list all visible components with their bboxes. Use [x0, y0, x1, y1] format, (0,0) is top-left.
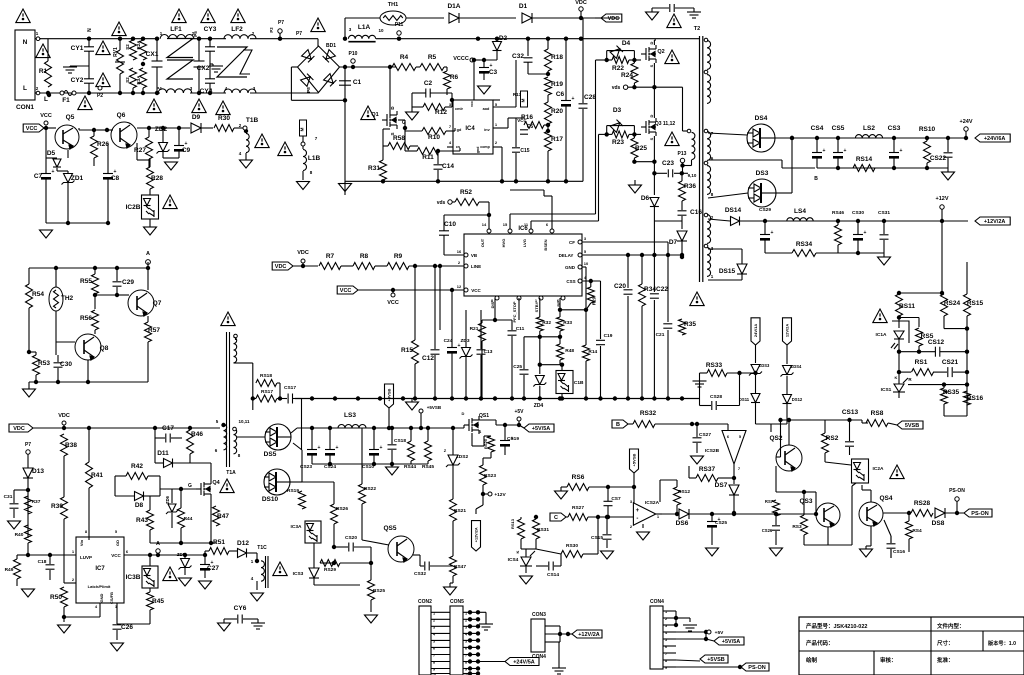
IC6 pin PFC_STOP — [512, 296, 521, 323]
svg-text:RS31: RS31 — [537, 527, 549, 533]
opto IC3A — [291, 521, 321, 543]
svg-text:R20: R20 — [551, 108, 563, 115]
svg-text:C9: C9 — [182, 147, 191, 154]
svg-text:ICS3: ICS3 — [293, 571, 304, 577]
svg-text:F1: F1 — [62, 97, 70, 104]
svg-text:R19: R19 — [551, 81, 563, 88]
svg-text:R27: R27 — [134, 147, 146, 154]
svg-text:K: K — [895, 375, 898, 380]
capacitor CY6 — [224, 605, 258, 624]
svg-text:+12V/2A: +12V/2A — [984, 219, 1006, 225]
svg-text:R52: R52 — [460, 189, 472, 196]
IC IC4 — [449, 100, 498, 154]
diode D11 — [157, 450, 172, 468]
node B flag — [612, 420, 633, 428]
net flag +5V/5A — [519, 424, 554, 432]
svg-text:IC1B: IC1B — [573, 380, 584, 386]
svg-text:DS8: DS8 — [932, 520, 945, 527]
svg-text:R28: R28 — [151, 175, 163, 182]
svg-text:CF: CF — [569, 240, 575, 245]
wire — [444, 213, 491, 255]
net +12V b — [481, 492, 507, 498]
diode D2 — [493, 35, 508, 51]
vflag 24V1A — [751, 318, 760, 345]
opto IC1A — [876, 321, 909, 349]
wire — [925, 136, 929, 168]
svg-text:R25: R25 — [635, 145, 647, 152]
wire — [479, 202, 489, 228]
junction — [403, 126, 407, 130]
svg-text:BD1: BD1 — [326, 43, 336, 49]
svg-text:Q2: Q2 — [657, 49, 664, 55]
capacitor C28 — [579, 18, 597, 181]
svg-text:S: S — [649, 137, 654, 140]
transistor QS3 — [799, 498, 840, 527]
svg-text:+5VSB: +5VSB — [707, 657, 725, 663]
svg-text:R18: R18 — [551, 54, 563, 61]
net +5V b — [707, 630, 724, 636]
wire R29 col — [584, 281, 591, 312]
wire — [862, 485, 871, 502]
net flag VDC2 — [272, 250, 309, 270]
junction — [54, 266, 150, 270]
opto IC1B — [556, 371, 584, 394]
resistor RS33 — [706, 362, 727, 377]
net VDC stub — [58, 413, 70, 430]
svg-text:T1B: T1B — [246, 117, 259, 124]
svg-text:+24V: +24V — [960, 119, 973, 125]
ground — [22, 589, 35, 597]
svg-text:RS15: RS15 — [967, 300, 984, 307]
capacitor CS22 — [930, 136, 953, 168]
svg-text:9: 9 — [665, 666, 667, 670]
junction — [161, 126, 165, 130]
svg-text:3: 3 — [449, 102, 452, 107]
node L — [44, 93, 51, 103]
svg-text:C31: C31 — [4, 494, 13, 500]
svg-text:RS13: RS13 — [510, 518, 515, 529]
svg-text:Latch/Plimit: Latch/Plimit — [88, 584, 111, 589]
ground — [520, 576, 533, 584]
svg-text:6: 6 — [215, 448, 218, 453]
svg-text:4: 4 — [251, 576, 254, 581]
wire — [674, 611, 690, 627]
svg-text:C32: C32 — [512, 53, 524, 60]
svg-text:RS22: RS22 — [364, 486, 376, 492]
svg-text:10: 10 — [378, 28, 384, 33]
wire — [899, 350, 969, 354]
safety symbol — [36, 44, 50, 58]
wire D3 loop — [607, 126, 635, 135]
svg-text:RS26: RS26 — [336, 506, 348, 512]
IC IC7 — [72, 529, 129, 609]
wire — [493, 147, 502, 181]
svg-text:产品型号：JSK4210-022: 产品型号：JSK4210-022 — [806, 622, 867, 630]
ground — [444, 587, 457, 595]
wire — [675, 505, 679, 516]
svg-text:DS15: DS15 — [719, 268, 736, 275]
junction — [546, 72, 550, 76]
junction — [147, 126, 151, 130]
mosfet Q3 — [641, 114, 675, 140]
svg-text:GD: GD — [115, 540, 120, 546]
capacitor CS29 — [759, 207, 774, 253]
inductor LF2 top — [224, 26, 256, 39]
wire — [47, 39, 49, 61]
svg-text:CS23: CS23 — [300, 464, 312, 470]
svg-text:R12: R12 — [435, 109, 447, 116]
svg-text:C7: C7 — [34, 173, 43, 180]
safety symbol — [96, 41, 110, 55]
svg-text:4: 4 — [239, 151, 242, 156]
svg-text:GND: GND — [99, 593, 104, 602]
diode D4 — [610, 40, 630, 58]
wire — [430, 565, 453, 567]
svg-text:gnd: gnd — [476, 147, 480, 154]
svg-text:C19: C19 — [604, 333, 613, 339]
svg-text:15: 15 — [503, 222, 508, 227]
capacitor C29 — [113, 279, 135, 286]
svg-text:5: 5 — [433, 639, 435, 643]
junction — [46, 91, 50, 95]
svg-text:CSS: CSS — [566, 279, 575, 284]
resistor S2 lower — [125, 68, 137, 88]
wire mid row2 — [540, 363, 564, 367]
svg-text:QS3: QS3 — [799, 498, 812, 505]
capacitor C7 — [34, 169, 55, 180]
svg-text:LF2: LF2 — [231, 26, 243, 33]
svg-text:CS18: CS18 — [394, 438, 406, 444]
svg-text:+: + — [844, 148, 847, 154]
resistor R39 — [51, 497, 67, 519]
safety symbol — [311, 18, 325, 32]
junction — [388, 65, 392, 69]
resistor R22 — [612, 57, 629, 73]
wire — [160, 488, 196, 490]
svg-text:8: 8 — [433, 661, 435, 665]
junction — [155, 37, 159, 96]
ground — [40, 230, 53, 238]
wire — [526, 37, 530, 57]
wire QS2 base — [776, 418, 783, 457]
capacitor C23 — [662, 160, 674, 177]
svg-text:TH2: TH2 — [61, 295, 74, 302]
net flag +5VSB d — [700, 655, 728, 663]
svg-text:RS7: RS7 — [765, 499, 774, 504]
capacitor C15 — [512, 118, 530, 181]
capacitor C6 — [556, 37, 575, 182]
wire — [708, 193, 748, 198]
wire — [178, 128, 180, 158]
wire — [142, 39, 144, 93]
diode D12 — [237, 540, 249, 558]
svg-text:D: D — [462, 411, 465, 416]
svg-text:D5: D5 — [47, 150, 56, 157]
svg-text:+5VSB: +5VSB — [387, 389, 392, 402]
wire — [149, 189, 151, 195]
wire DELAY row — [582, 253, 684, 257]
svg-text:QS1: QS1 — [479, 413, 489, 419]
vflag +12V/2A — [472, 494, 484, 551]
svg-text:CON1: CON1 — [16, 104, 34, 111]
svg-text:3: 3 — [433, 625, 435, 629]
resistor R48 — [557, 344, 575, 360]
wire — [293, 264, 318, 268]
wire — [836, 219, 840, 253]
capacitor C20 — [614, 283, 632, 294]
inductor LS3 — [338, 412, 366, 428]
IC6 pin VB — [457, 249, 478, 258]
wire — [302, 171, 304, 180]
svg-text:2: 2 — [72, 577, 75, 582]
net flag PS-ON b — [741, 663, 769, 671]
ground — [251, 593, 264, 601]
resistor R54 — [26, 284, 45, 308]
connector pins CON2-CON5 — [431, 610, 480, 675]
wire — [897, 315, 901, 328]
svg-text:R38: R38 — [65, 442, 77, 449]
capacitor CX1 — [146, 51, 163, 67]
svg-text:C28: C28 — [584, 94, 596, 101]
wire — [676, 665, 742, 669]
wire — [546, 37, 550, 77]
svg-text:VDC: VDC — [58, 413, 70, 419]
safety symbol — [172, 9, 186, 23]
capacitor CS28 — [700, 373, 740, 410]
net flag +12V/2A b — [568, 630, 602, 638]
opto IC2B — [126, 195, 159, 219]
wire — [966, 262, 968, 294]
IC6 pin RF — [556, 296, 565, 307]
capacitor C2 — [424, 80, 433, 98]
net PS-ON — [949, 488, 965, 515]
svg-text:5: 5 — [115, 529, 118, 534]
wire — [426, 426, 430, 464]
wire — [755, 345, 757, 393]
svg-text:DS4: DS4 — [755, 115, 768, 122]
svg-text:Q6: Q6 — [117, 112, 126, 119]
capacitor CS30 — [852, 210, 867, 253]
resistor RS17 — [253, 389, 287, 402]
resistor RS32 — [633, 410, 657, 428]
svg-text:RS14: RS14 — [856, 156, 873, 163]
winding T2 primary feed — [680, 87, 695, 168]
capacitor CS4 — [811, 125, 826, 168]
mosfet Q1 — [371, 106, 406, 136]
svg-text:3: 3 — [630, 499, 633, 504]
svg-text:LVG: LVG — [522, 239, 527, 247]
svg-text:R24: R24 — [621, 72, 633, 79]
svg-text:+24V/6A: +24V/6A — [984, 136, 1006, 142]
capacitor CY2 — [71, 77, 94, 84]
wire +24 rail — [792, 137, 966, 139]
svg-text:1: 1 — [465, 611, 467, 615]
svg-text:S2: S2 — [125, 77, 130, 83]
wire — [633, 60, 635, 87]
wire C25 col — [523, 337, 525, 398]
wire — [155, 438, 190, 463]
wire sec return — [817, 166, 948, 170]
wire — [802, 490, 818, 516]
wire — [898, 372, 900, 398]
svg-text:C11: C11 — [516, 326, 525, 332]
safety symbol — [216, 101, 230, 115]
wire — [465, 310, 467, 398]
svg-text:CS/FB: CS/FB — [109, 592, 114, 604]
svg-text:1: 1 — [72, 549, 75, 554]
wire ZD4 col — [539, 386, 541, 398]
svg-text:12: 12 — [457, 284, 462, 289]
transistor QS2 — [769, 435, 802, 471]
svg-text:ZDS4: ZDS4 — [791, 364, 802, 369]
resistor R25 — [631, 138, 647, 158]
zener ZD4 — [533, 376, 546, 410]
resistor R21 — [470, 323, 486, 341]
safety symbol — [361, 106, 375, 120]
wire — [94, 330, 96, 334]
IC6 pin GND — [565, 261, 589, 270]
resistor RS34 — [792, 241, 816, 257]
junction — [131, 37, 135, 96]
svg-text:RS44: RS44 — [404, 464, 416, 470]
svg-text:5: 5 — [216, 419, 219, 424]
wire bridge left — [291, 67, 347, 103]
svg-text:RS11: RS11 — [899, 303, 915, 310]
resistor R30 — [214, 115, 234, 132]
resistor R42 — [126, 463, 148, 480]
resistor R45 — [147, 592, 165, 610]
svg-text:7: 7 — [465, 654, 467, 658]
wire — [727, 371, 758, 375]
wire — [354, 547, 371, 580]
wire — [450, 583, 453, 587]
marker R13 — [513, 91, 528, 107]
svg-text:+5VSB: +5VSB — [427, 405, 442, 410]
capacitor C8 — [103, 169, 120, 182]
earth ground — [479, 620, 493, 630]
wire — [382, 180, 384, 181]
junction — [438, 264, 442, 268]
capacitor C30 — [54, 361, 73, 368]
diode D13 — [23, 468, 44, 478]
capacitor C24 — [444, 338, 461, 354]
resistor RS3 — [792, 515, 807, 535]
svg-text:C15: C15 — [520, 148, 529, 154]
svg-text:CS3: CS3 — [888, 125, 901, 132]
svg-text:R42: R42 — [131, 463, 143, 470]
capacitor CS10 — [362, 426, 383, 470]
ground — [339, 181, 352, 191]
wire — [908, 382, 969, 386]
svg-text:G: G — [188, 483, 192, 489]
connector CON4 — [650, 599, 664, 669]
wire — [689, 466, 734, 478]
svg-text:IC1A: IC1A — [876, 332, 887, 338]
svg-text:cmlr: cmlr — [455, 107, 464, 111]
svg-text:C26: C26 — [121, 624, 133, 631]
net +5VSB stub — [419, 405, 442, 430]
svg-text:R14: R14 — [588, 349, 597, 355]
svg-text:RS35: RS35 — [943, 389, 960, 396]
resistor R1 — [39, 61, 52, 87]
svg-text:9: 9 — [433, 668, 435, 672]
wire — [708, 219, 730, 221]
svg-text:RS16: RS16 — [967, 395, 984, 402]
resistor R12 — [423, 104, 447, 117]
capacitor C1 — [339, 79, 362, 86]
svg-text:DS12: DS12 — [792, 397, 803, 402]
wire — [344, 18, 346, 39]
diode D3 — [610, 107, 623, 132]
wire — [237, 436, 265, 438]
svg-text:A: A — [146, 251, 150, 257]
node P13 — [678, 151, 687, 173]
svg-text:S2: S2 — [125, 44, 130, 50]
svg-text:R2A: R2A — [136, 40, 141, 50]
capacitor CS15 — [591, 515, 612, 548]
svg-text:RS24: RS24 — [944, 300, 961, 307]
svg-text:PS-ON: PS-ON — [949, 488, 965, 494]
ground — [297, 182, 310, 190]
resistor R29 — [587, 287, 596, 305]
svg-text:R17: R17 — [551, 136, 563, 143]
wire — [332, 524, 348, 549]
junction — [118, 37, 122, 96]
svg-text:CON4: CON4 — [650, 599, 664, 605]
winding T1B — [239, 117, 259, 156]
capacitor CS32 — [414, 562, 429, 578]
svg-text:CON2: CON2 — [418, 599, 432, 605]
wire — [115, 476, 160, 496]
svg-text:D8: D8 — [135, 502, 144, 509]
resistor RS26 — [331, 504, 349, 524]
wire — [147, 316, 149, 382]
svg-text:Q4: Q4 — [212, 480, 220, 486]
svg-text:审核：: 审核： — [880, 656, 897, 664]
wire — [94, 268, 96, 309]
wire sec return2 — [312, 462, 428, 466]
svg-text:P11: P11 — [395, 22, 404, 28]
wire — [899, 352, 969, 406]
wire — [234, 127, 244, 129]
net flag VCC2 — [337, 286, 464, 306]
resistor R9 — [387, 253, 409, 270]
earth ground2 — [693, 373, 708, 387]
wire R14 col — [585, 277, 587, 398]
winding T2 sec lower — [707, 166, 714, 197]
svg-text:+5V: +5V — [715, 630, 724, 636]
junction — [482, 58, 486, 62]
svg-text:N: N — [87, 28, 93, 32]
ground — [240, 153, 253, 168]
wire — [361, 428, 363, 484]
svg-text:6: 6 — [126, 549, 129, 554]
svg-text:3: 3 — [584, 236, 587, 241]
wire — [897, 291, 944, 295]
svg-text:N: N — [23, 39, 28, 46]
IC6 pin STBY — [534, 296, 543, 312]
wire — [383, 146, 418, 160]
capacitor C19 — [596, 333, 613, 345]
svg-text:-: - — [636, 516, 638, 522]
resistor R34 — [639, 284, 657, 306]
svg-text:R40: R40 — [15, 532, 24, 538]
capacitor CS13 — [842, 409, 859, 455]
svg-text:DS14: DS14 — [725, 207, 742, 214]
svg-text:C29: C29 — [122, 279, 134, 286]
svg-text:CS30: CS30 — [852, 210, 864, 216]
resistor R58 — [388, 135, 410, 150]
